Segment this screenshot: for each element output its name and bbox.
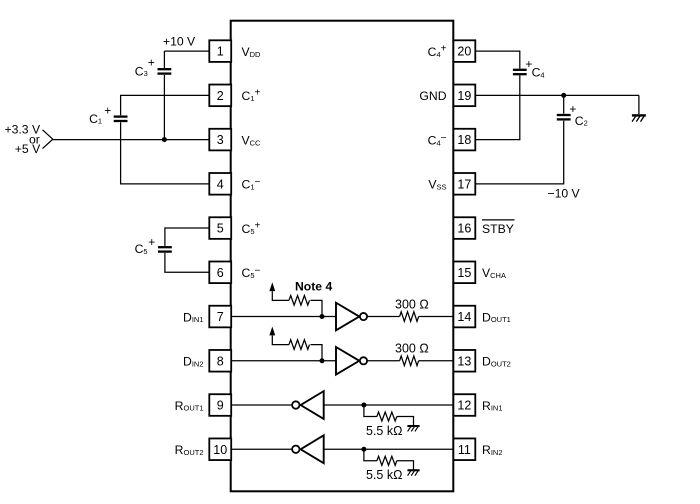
junction dot on receiver input row 9 [361,403,366,408]
svg-text:12: 12 [457,399,471,413]
svg-text:18: 18 [457,133,471,147]
wire pin 9 to receiver output bubble [231,404,292,406]
svg-text:13: 13 [457,354,471,368]
pull-up resistor with arrow (row 8) [269,326,322,360]
pin 17 box [453,173,475,195]
capacitor C1 [114,117,128,121]
pin 10 box [209,438,231,460]
resistor 300 ohm (row 8) [400,356,419,366]
pin 8 box [209,350,231,372]
wire pin 10 to receiver output bubble [231,448,292,450]
wire inverter to 300 ohm (row 7) [367,316,400,318]
svg-text:15: 15 [457,266,471,280]
wire C4 to pin18 [475,76,520,140]
wire C1 to pin4 [121,122,210,184]
wire pin19 GND net [475,94,639,96]
svg-text:4: 4 [217,177,224,191]
pin 3 box [209,129,231,151]
wire C5 to pin6 [165,253,209,272]
IC body U1 [231,21,454,492]
svg-text:3: 3 [217,133,224,147]
svg-text:8: 8 [217,354,224,368]
svg-text:1: 1 [217,45,224,59]
node B junction dot [561,93,566,98]
capacitor C4 [513,70,527,74]
svg-text:GND: GND [419,89,446,103]
capacitor C5 [158,247,172,251]
wire C2 to pin17 [475,121,563,184]
pin 19 box [453,85,475,107]
wire pin5 to C5 [165,228,209,246]
node A junction dot [162,137,167,142]
svg-text:20: 20 [457,45,471,59]
wire pin 8 to driver input [231,360,336,362]
svg-text:STBY: STBY [482,222,514,236]
wire 300 ohm to pin 14 [419,316,454,318]
pin 7 box [209,306,231,328]
pin 16 label STBY (active low) [482,220,515,236]
svg-text:5.5 kΩ: 5.5 kΩ [366,424,402,438]
pull-down resistor 5.5k (row 9) [364,405,414,426]
svg-text:14: 14 [457,310,471,324]
ground symbol (row 9) [407,426,419,431]
pin 20 box [453,40,475,62]
wire +10V node down to C3 [163,51,165,68]
driver inverter (row 7) [336,303,367,331]
driver inverter (row 8) [336,347,367,375]
junction dot on receiver input row 10 [361,447,366,452]
capacitor C3 [158,69,172,73]
ground symbol (chassis) [632,115,646,121]
capacitor C2 [557,115,571,119]
resistor 300 ohm (row 7) [400,312,419,322]
wire pin1 to +10V node [164,50,209,52]
svg-text:16: 16 [457,222,471,236]
svg-text:9: 9 [217,399,224,413]
wire receiver input to pin 11 [324,448,454,450]
svg-text:Note 4: Note 4 [295,280,332,294]
wire pin 7 to driver input [231,316,336,318]
svg-text:6: 6 [217,266,224,280]
svg-text:300 Ω: 300 Ω [395,342,429,356]
junction dot on input row 8 [320,358,325,363]
svg-text:+5 V: +5 V [15,142,41,156]
svg-text:10: 10 [213,443,227,457]
svg-text:+: + [148,56,155,70]
pin 18 box [453,129,475,151]
pin 1 box [209,40,231,62]
svg-text:5.5 kΩ: 5.5 kΩ [366,468,402,482]
pin 16 box [453,217,475,239]
pin 6 box [209,262,231,284]
svg-text:−10 V: −10 V [548,187,581,201]
svg-text:+: + [148,235,155,249]
svg-text:+10 V: +10 V [163,35,196,49]
wire GND net down to ground [638,95,640,114]
pin 4 box [209,173,231,195]
pin 2 box [209,85,231,107]
svg-text:+: + [104,104,111,118]
pin 15 box [453,262,475,284]
pin 5 box [209,217,231,239]
pin 11 box [453,438,475,460]
svg-text:19: 19 [457,89,471,103]
wire receiver input to pin 12 [324,404,454,406]
pull-down resistor 5.5k (row 10) [364,449,414,470]
svg-text:7: 7 [217,310,224,324]
svg-text:5: 5 [217,222,224,236]
junction dot on input row 7 [320,314,325,319]
wire C3 to node A [163,75,165,140]
wire source to pin3 [53,139,210,141]
receiver inverter (row 10) [292,435,324,463]
pin 13 box [453,350,475,372]
wire 300 ohm to pin 13 [419,360,454,362]
pin 12 box [453,394,475,416]
pin 14 box [453,306,475,328]
wire inverter to 300 ohm (row 8) [367,360,400,362]
svg-text:17: 17 [457,177,471,191]
pin 9 box [209,394,231,416]
receiver inverter (row 9) [292,391,324,419]
wire node B to C2 [563,95,565,113]
wire pin20 to C4 [475,51,520,68]
svg-text:11: 11 [458,443,471,457]
pull-up resistor with arrow (row 7) [269,282,322,316]
svg-text:2: 2 [217,89,224,103]
ground symbol (row 10) [407,470,419,475]
source chevron [43,130,53,149]
wire pin2 to C1 [121,95,210,115]
svg-text:300 Ω: 300 Ω [395,297,429,311]
